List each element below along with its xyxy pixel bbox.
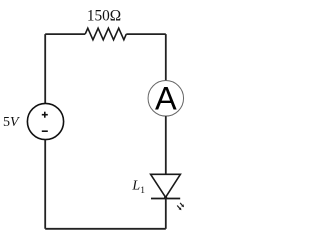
minus sign [42, 130, 48, 132]
wire left lower (voltage source to bottom corner) [44, 140, 46, 229]
wire left upper (top corner to voltage source) [44, 34, 46, 103]
svg-text:150Ω: 150Ω [87, 7, 121, 24]
resistor R1 value label 150Ω [87, 7, 121, 24]
LED L1 triangle (anode) [151, 174, 181, 197]
wire right upper (top corner to ammeter) [165, 34, 167, 81]
resistor R1 zigzag [85, 28, 126, 40]
label 5V [3, 115, 20, 130]
LED L1 light emission arrow 2 [180, 203, 184, 207]
bottom wire [45, 228, 166, 230]
wire top-left segment [45, 33, 85, 35]
svg-text:1: 1 [140, 186, 145, 196]
ammeter letter A [155, 81, 177, 117]
label L1 [131, 179, 145, 197]
svg-text:L: L [131, 179, 140, 194]
wire right middle (ammeter to LED) [165, 116, 167, 174]
ammeter M1 circle [148, 81, 184, 117]
plus sign [42, 112, 48, 118]
svg-text:5V: 5V [3, 115, 20, 130]
svg-text:A: A [155, 81, 177, 117]
LED L1 light emission arrow 1 [177, 206, 181, 211]
wire right lower (LED to bottom corner) [165, 199, 167, 229]
LED L1 cathode bar [151, 198, 180, 200]
voltage source V1 circle [27, 103, 63, 139]
wire top-right segment [126, 33, 166, 35]
junction dot at LED apex [164, 196, 167, 199]
